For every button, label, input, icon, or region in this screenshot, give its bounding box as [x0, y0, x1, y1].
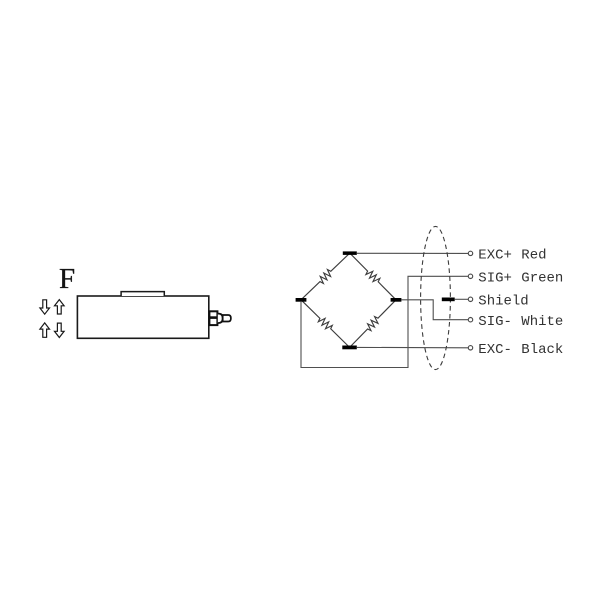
node pad top: [343, 251, 357, 255]
wire SIG- from right node (right, down, right): [401, 300, 468, 320]
connector tip: [223, 315, 231, 322]
terminal EXC+: [468, 251, 472, 255]
load cell body: [77, 296, 208, 338]
connector flange: [209, 311, 217, 325]
terminal Shield: [468, 297, 472, 301]
terminal SIG-: [468, 318, 472, 322]
force arrow down (bottom-right): [55, 323, 65, 337]
svg-text:SIG+ Green: SIG+ Green: [478, 271, 563, 287]
connector collar: [218, 314, 223, 323]
terminal SIG+: [468, 274, 472, 278]
bridge resistor R2 (top-right arm): [350, 253, 396, 300]
force arrow up (top-right): [55, 300, 65, 314]
force arrow down (top-left): [40, 300, 50, 314]
cable ellipse (dashed): [421, 226, 451, 369]
wire shield to terminal: [455, 298, 469, 300]
bridge resistor R1 (top-left arm): [301, 253, 350, 300]
svg-text:F: F: [59, 263, 75, 295]
node pad bottom: [342, 346, 357, 350]
force arrow up (bottom-left): [40, 323, 50, 337]
wire SIG+ from left node (down, right, up, right): [301, 276, 468, 367]
wire EXC+ from top node: [357, 252, 469, 254]
node pad right: [391, 298, 402, 302]
wire EXC- from bottom node: [357, 346, 469, 348]
svg-text:EXC- Black: EXC- Black: [478, 342, 563, 358]
terminal EXC-: [468, 346, 472, 350]
bridge resistor R4 (bottom-right arm): [350, 300, 396, 348]
connector flange middle band: [209, 316, 218, 319]
node pad left: [296, 298, 307, 302]
svg-text:SIG- White: SIG- White: [478, 314, 563, 330]
svg-text:Shield: Shield: [478, 294, 528, 310]
bridge resistor R3 (bottom-left arm): [301, 300, 350, 348]
load button on top: [121, 292, 164, 296]
svg-text:EXC+ Red: EXC+ Red: [478, 248, 546, 264]
shield wire stub: [442, 298, 455, 302]
